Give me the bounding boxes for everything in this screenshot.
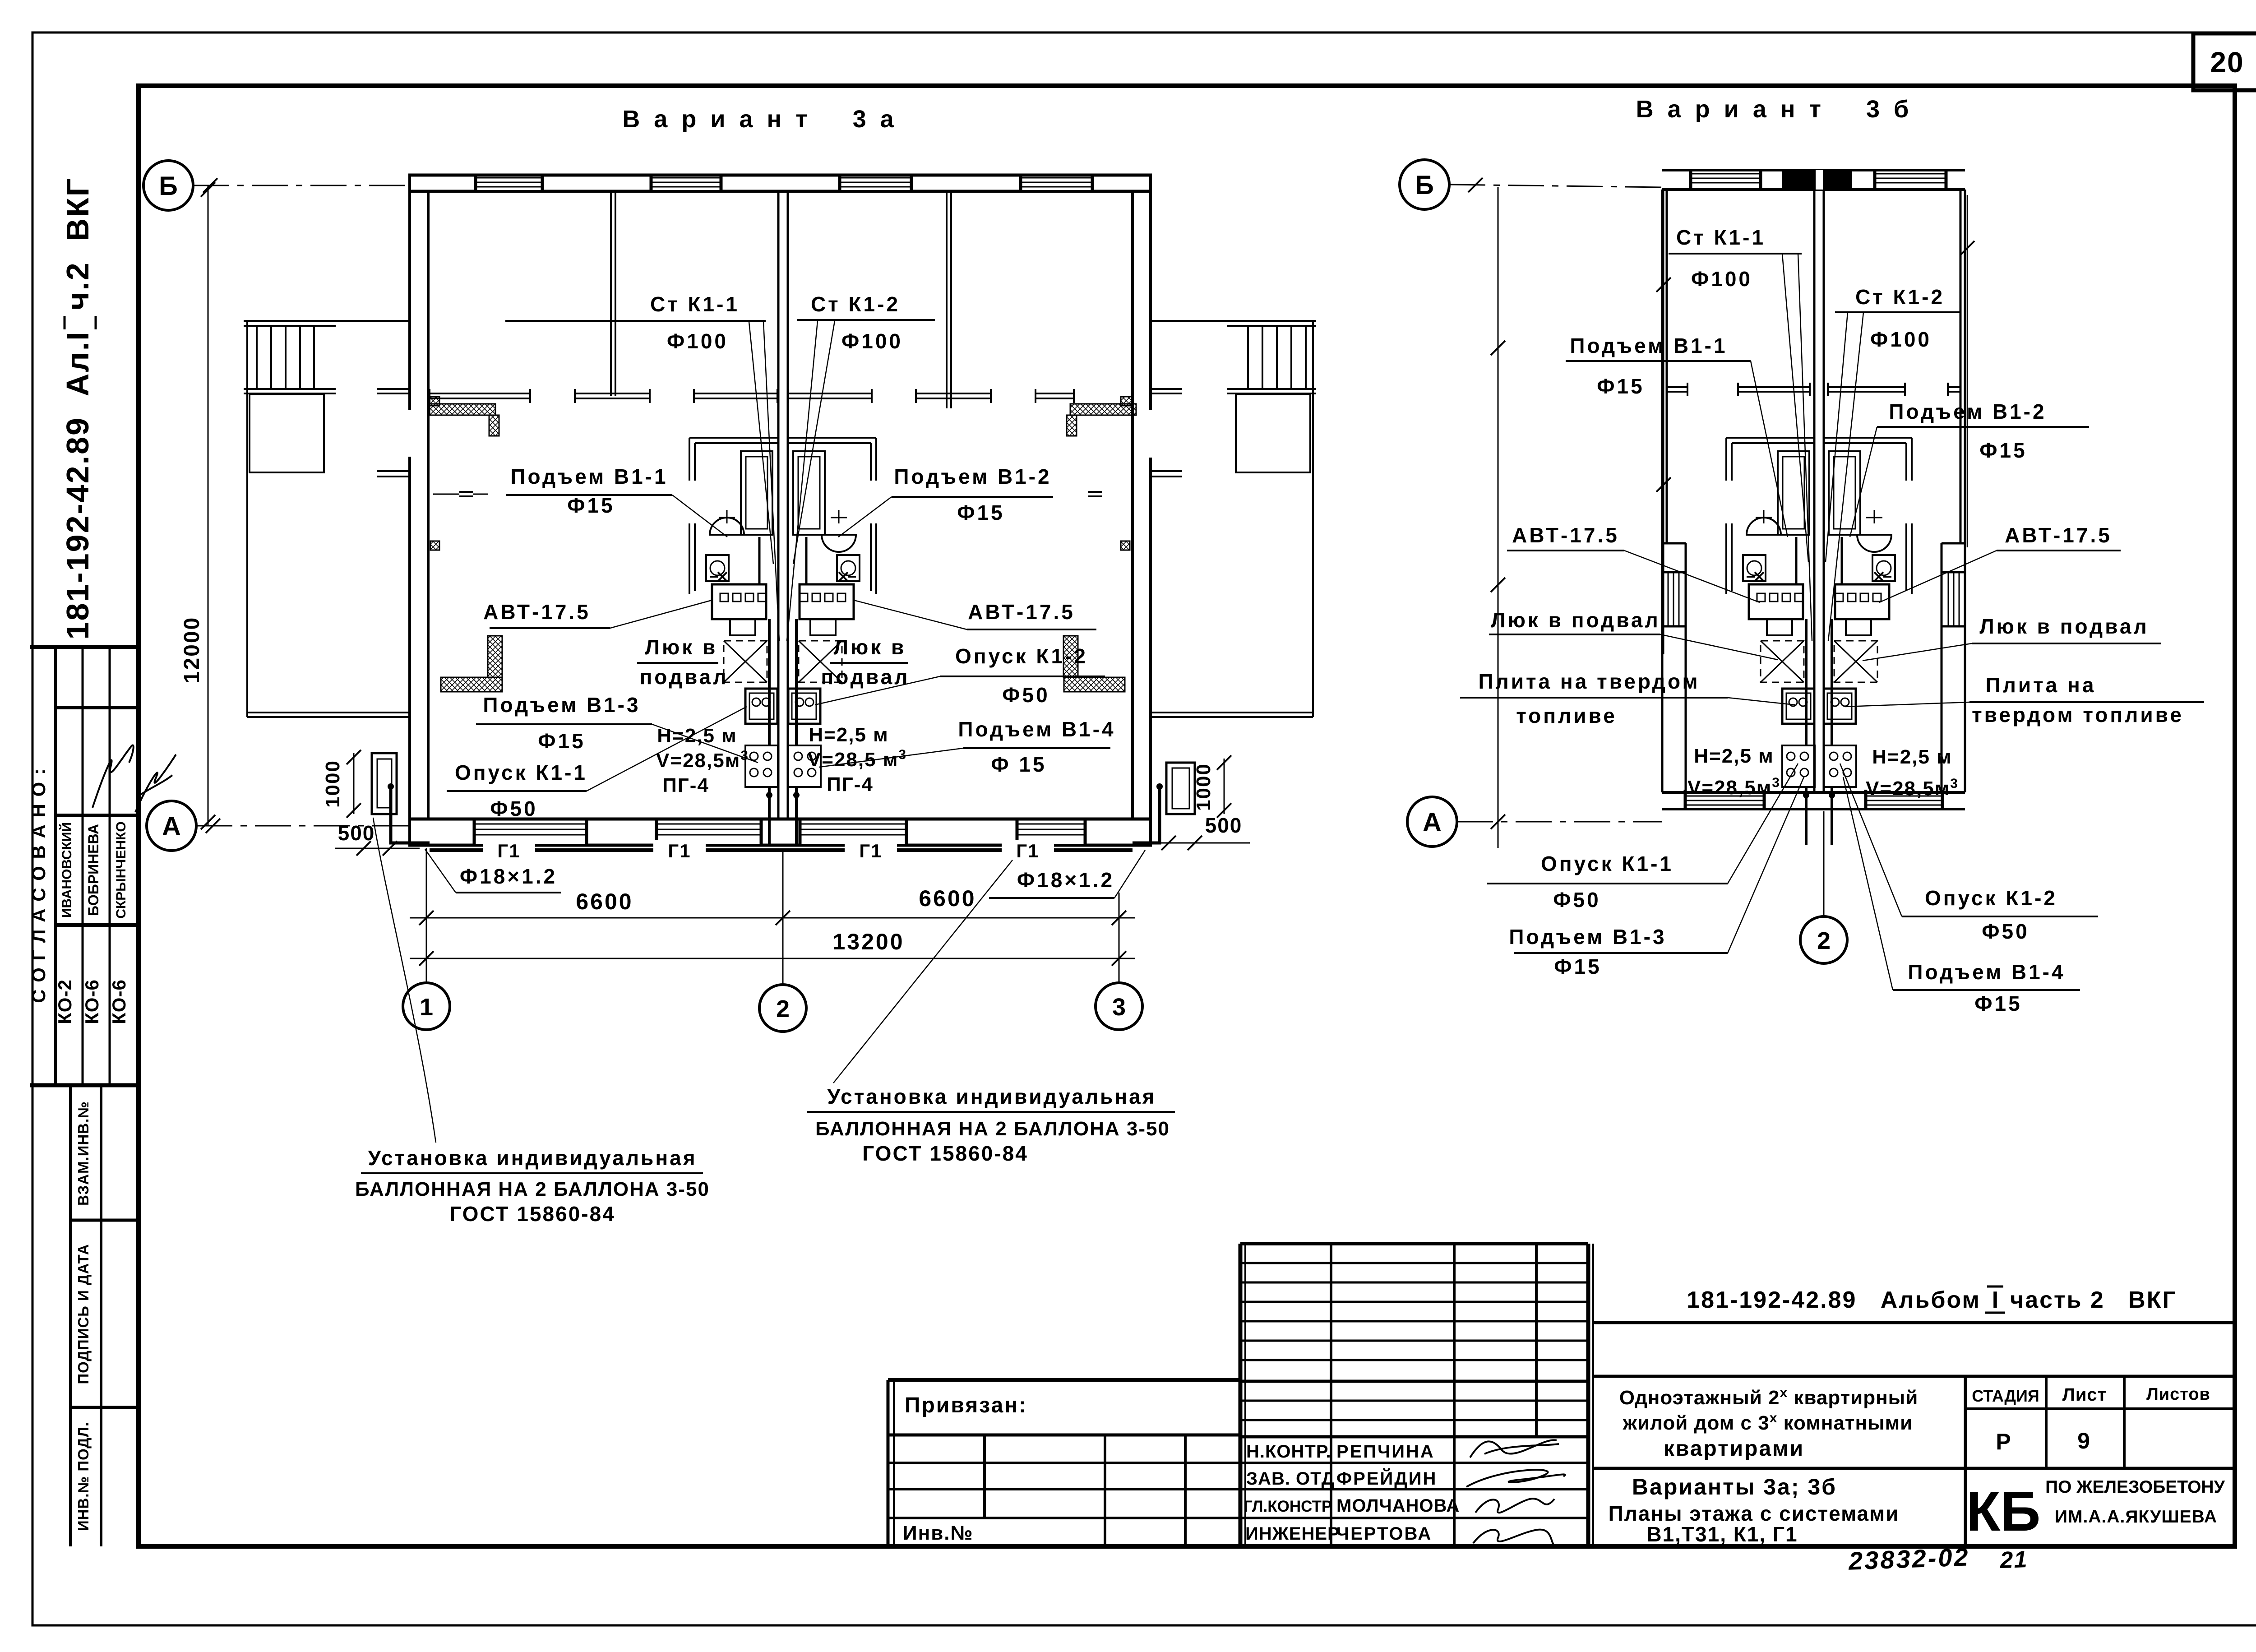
svg-text:13200: 13200 <box>832 929 904 954</box>
leader плита right plan left <box>1728 698 1795 705</box>
svg-text:Ст К1-1: Ст К1-1 <box>1676 226 1766 249</box>
left porch left edge <box>246 321 248 717</box>
svg-text:Г1: Г1 <box>1016 840 1039 861</box>
svg-text:Люк в подвал: Люк в подвал <box>1491 608 1660 632</box>
svg-text:АВТ-17.5: АВТ-17.5 <box>1512 523 1619 547</box>
left plan kitchen hatched wall right horizontal <box>1064 677 1125 692</box>
svg-text:ГЛ.КОНСТР: ГЛ.КОНСТР <box>1244 1498 1332 1515</box>
leader Подъем В1-2 right plan <box>1850 427 1877 537</box>
svg-text:Ф 15: Ф 15 <box>991 753 1046 776</box>
svg-text:В а р и а н т 3 а: В а р и а н т 3 а <box>622 106 897 133</box>
sidebar table top line <box>30 645 139 649</box>
left plan top window 2262-2421 <box>1021 177 1092 190</box>
svg-text:ИНЖЕНЕР: ИНЖЕНЕР <box>1245 1524 1340 1544</box>
svg-text:Ф15: Ф15 <box>1554 955 1601 978</box>
svg-text:6600: 6600 <box>919 886 976 911</box>
svg-text:Опуск К1-2: Опуск К1-2 <box>955 644 1088 668</box>
left plan kitchen hatched wall left vertical <box>488 636 502 677</box>
gas water heater АГВ <box>712 584 766 619</box>
bathroom enclosure walls <box>689 437 777 439</box>
water riser and valve <box>1755 572 1764 581</box>
bath tub <box>793 451 825 535</box>
central table verticals <box>1330 1244 1332 1546</box>
dim 1000 left <box>353 753 355 814</box>
left plan bottom outer wall line <box>408 844 1152 847</box>
svg-text:Люк в: Люк в <box>834 635 906 659</box>
water riser and valve <box>718 572 727 581</box>
left plan bottom window 1455-1687 <box>656 821 761 844</box>
svg-text:МОЛЧАНОВА: МОЛЧАНОВА <box>1336 1496 1460 1516</box>
left plan top inner wall line <box>408 190 1152 193</box>
left plan kitchen hatched wall right vertical <box>1063 636 1078 677</box>
bathroom enclosure walls <box>1726 437 1814 439</box>
svg-text:ФРЕЙДИН: ФРЕЙДИН <box>1336 1468 1437 1489</box>
wash basin <box>822 535 856 552</box>
left porch bottom edge <box>247 712 408 713</box>
sidebar row line <box>55 706 139 709</box>
vertical dimension extension right plan <box>1498 187 1499 848</box>
svg-text:топливе: топливе <box>1516 704 1617 727</box>
sidebar lower cells verticals <box>69 1085 72 1546</box>
svg-text:БАЛЛОННАЯ НА 2 БАЛЛОНА 3-50: БАЛЛОННАЯ НА 2 БАЛЛОНА 3-50 <box>815 1118 1170 1140</box>
svg-text:Опуск К1-2: Опуск К1-2 <box>1925 886 2057 910</box>
svg-text:ЧЕРТОВА: ЧЕРТОВА <box>1336 1524 1432 1544</box>
right plan top outer wall line <box>1662 169 1965 171</box>
svg-text:Ф18×1.2: Ф18×1.2 <box>460 865 557 888</box>
vertical dimension line right plan <box>1663 190 1664 654</box>
svg-text:500: 500 <box>338 821 375 845</box>
left plan bottom window 2254-2405 <box>1017 821 1085 844</box>
sidebar lower row line 1 <box>70 1219 139 1222</box>
svg-text:СКРЫНЧЕНКО: СКРЫНЧЕНКО <box>114 821 129 918</box>
svg-text:Люк в подвал: Люк в подвал <box>1979 615 2149 638</box>
leader люк right plan left <box>1660 634 1778 660</box>
left porch rail <box>244 388 336 390</box>
axis circle 1 <box>403 983 450 1030</box>
left porch stairs <box>256 326 258 389</box>
left plan hatched wall right horizontal <box>1070 404 1136 415</box>
svg-text:ПО ЖЕЛЕЗОБЕТОНУ: ПО ЖЕЛЕЗОБЕТОНУ <box>2045 1477 2225 1497</box>
names rows <box>1240 1462 1588 1464</box>
svg-text:КО-6: КО-6 <box>81 979 102 1024</box>
svg-text:V=28,5 м3: V=28,5 м3 <box>808 747 907 771</box>
water riser and valve <box>839 572 848 581</box>
right porch wall boxes <box>1121 397 1132 406</box>
svg-text:Ф18×1.2: Ф18×1.2 <box>1017 868 1114 892</box>
right plan central wall <box>1813 190 1816 792</box>
svg-text:Инв.№: Инв.№ <box>903 1522 974 1544</box>
dim 500 left <box>335 848 420 849</box>
gas pipe riser <box>1805 619 1808 745</box>
svg-text:ВЗАМ.ИНВ.№: ВЗАМ.ИНВ.№ <box>75 1101 92 1206</box>
svg-text:ИМ.А.А.ЯКУШЕВА: ИМ.А.А.ЯКУШЕВА <box>2055 1507 2217 1527</box>
svg-text:500: 500 <box>1205 814 1243 837</box>
bath tub <box>1829 451 1860 535</box>
svg-text:Подъем В1-2: Подъем В1-2 <box>894 465 1051 488</box>
sidebar names row bottom <box>55 923 139 927</box>
svg-text:Плита на: Плита на <box>1986 673 2096 697</box>
svg-text:1000: 1000 <box>322 760 344 808</box>
kitchen sink <box>788 689 820 724</box>
right plan top inner wall line <box>1662 188 1965 191</box>
svg-text:Н=2,5 м: Н=2,5 м <box>809 724 888 746</box>
dim 1000 right <box>1224 759 1225 814</box>
title block left table columns <box>983 1435 986 1518</box>
axis circle 2 right plan <box>1800 916 1847 963</box>
svg-text:Ф15: Ф15 <box>1979 439 2027 462</box>
description bottom line <box>1593 1467 2235 1470</box>
right plan left wall lower band <box>1685 543 1687 792</box>
leader Подъем В1-2 <box>838 497 892 537</box>
svg-text:БАЛЛОННАЯ НА 2 БАЛЛОНА 3-50: БАЛЛОННАЯ НА 2 БАЛЛОНА 3-50 <box>355 1178 710 1200</box>
signature Фрейдин <box>1466 1470 1565 1487</box>
svg-text:Ст К1-1: Ст К1-1 <box>650 292 740 316</box>
svg-text:Н=2,5 м: Н=2,5 м <box>1694 745 1774 767</box>
left plan right wall outer line <box>1149 175 1152 410</box>
svg-text:А: А <box>1423 808 1442 837</box>
svg-text:V=28,5м3: V=28,5м3 <box>1866 776 1959 800</box>
leader Ст К1-1 <box>749 322 773 564</box>
svg-text:твердом топливе: твердом топливе <box>1972 703 2184 727</box>
hatch to cellar dashed <box>1761 641 1804 682</box>
leader Ст К1-2 right plan <box>1826 312 1848 562</box>
roman I marks <box>1987 1286 2003 1288</box>
leader Опуск К1-2 <box>815 676 940 705</box>
leader Опуск К1-2 right plan <box>1840 764 1902 916</box>
svg-text:I: I <box>1992 1287 1998 1313</box>
kitchen sink <box>1824 689 1856 724</box>
svg-text:Ф100: Ф100 <box>1870 328 1932 351</box>
svg-text:20: 20 <box>2210 46 2244 79</box>
right plan top central solid block <box>1782 169 1852 191</box>
svg-text:часть 2 ВКГ: часть 2 ВКГ <box>2010 1287 2177 1313</box>
leader Подъем В1-3 right plan <box>1728 777 1804 953</box>
gas cabinet pipe left <box>391 787 430 843</box>
left porch wall boxes <box>429 397 439 406</box>
svg-text:Одноэтажный 2х квартирный: Одноэтажный 2х квартирный <box>1619 1385 1919 1409</box>
leader АВТ-17.5 right plan left <box>1624 551 1760 602</box>
svg-text:Подъем В1-4: Подъем В1-4 <box>958 717 1115 741</box>
left plan interior vertical partition left apartment <box>610 191 612 396</box>
left plan transverse partition <box>430 393 530 394</box>
left plan hatched wall left horizontal <box>430 404 495 415</box>
svg-text:Ф100: Ф100 <box>841 329 903 353</box>
svg-text:ПОДПИСЬ И ДАТА: ПОДПИСЬ И ДАТА <box>75 1244 92 1384</box>
svg-text:6600: 6600 <box>576 889 633 914</box>
bath tub <box>741 451 772 535</box>
leader Подъем В1-4 right plan <box>1843 777 1893 990</box>
svg-text:КБ: КБ <box>1966 1481 2041 1543</box>
leader Ст К1-1 right plan <box>1782 254 1808 562</box>
right plan top window 4155-4313 <box>1875 172 1946 188</box>
svg-text:Опуск К1-1: Опуск К1-1 <box>1541 852 1674 875</box>
svg-text:жилой дом с 3х комнатными: жилой дом с 3х комнатными <box>1623 1411 1913 1434</box>
svg-text:12000: 12000 <box>180 616 204 683</box>
leader Ст К1-2 <box>793 321 835 564</box>
kitchen sink <box>1782 689 1814 724</box>
leader АВТ-17.5 right <box>854 600 967 629</box>
right porch stairs <box>1247 326 1249 389</box>
wash basin <box>1857 535 1891 552</box>
leader Ф18х1.2 right <box>1114 850 1145 898</box>
svg-text:Ф50: Ф50 <box>1982 920 2029 943</box>
right plan bottom window 4135-4305 <box>1866 794 1942 807</box>
axis line А right plan <box>1457 821 1662 823</box>
right plan top window 3747-3902 <box>1691 172 1761 188</box>
left plan kitchen hatched wall left horizontal <box>441 677 502 692</box>
svg-text:квартирами: квартирами <box>1664 1437 1804 1461</box>
svg-text:АВТ-17.5: АВТ-17.5 <box>968 600 1075 624</box>
leader люк right plan right <box>1863 643 1972 661</box>
svg-text:ЗАВ. ОТД: ЗАВ. ОТД <box>1246 1469 1335 1489</box>
left plan central party wall <box>777 191 780 819</box>
left porch landing <box>250 394 324 472</box>
svg-text:Люк в: Люк в <box>645 635 718 659</box>
axis line Б left <box>193 185 408 186</box>
svg-text:ГОСТ 15860-84: ГОСТ 15860-84 <box>449 1202 615 1226</box>
svg-text:Ф50: Ф50 <box>1553 888 1600 912</box>
gas line Г1 <box>430 848 490 852</box>
svg-text:ГОСТ 15860-84: ГОСТ 15860-84 <box>862 1142 1028 1165</box>
svg-text:В1,Т31, К1, Г1: В1,Т31, К1, Г1 <box>1646 1522 1798 1546</box>
axis extension line 3 <box>1119 893 1120 983</box>
gas cabinet pipe right <box>1133 787 1160 843</box>
toilet <box>837 555 860 581</box>
right plan partition stubs <box>1667 386 1687 388</box>
sidebar signature squiggle 1 <box>92 745 134 808</box>
leader плита right plan right <box>1845 702 1969 707</box>
sheet number box 20 <box>2193 33 2256 90</box>
svg-text:Подъем В1-2: Подъем В1-2 <box>1889 400 2046 423</box>
hatch to cellar dashed <box>799 641 842 682</box>
axis extension 2 right plan <box>1823 811 1825 916</box>
svg-text:Подъем В1-1: Подъем В1-1 <box>510 465 668 488</box>
gas pipe riser <box>1831 619 1833 745</box>
svg-text:Б: Б <box>159 171 178 201</box>
axis line А left <box>196 825 410 827</box>
axis circle А left <box>147 801 196 851</box>
svg-text:2: 2 <box>776 995 790 1023</box>
svg-text:2: 2 <box>1817 927 1831 954</box>
axis circle Б left <box>143 161 193 210</box>
bath tub <box>1778 451 1809 535</box>
svg-text:Подъем В1-3: Подъем В1-3 <box>483 693 640 717</box>
svg-text:Г1: Г1 <box>859 840 882 861</box>
left plan top window 1054-1202 <box>476 177 542 190</box>
stove ПГ-4 <box>1782 745 1815 787</box>
gas water heater АГВ <box>1835 584 1889 619</box>
leader Подъем В1-4 <box>819 748 963 767</box>
svg-text:Ф15: Ф15 <box>1597 375 1644 398</box>
svg-text:181-192-42.89 Альбом: 181-192-42.89 Альбом <box>1687 1287 1981 1313</box>
axis circle А right plan <box>1407 797 1457 847</box>
axis circle 2 <box>759 985 806 1032</box>
hatch to cellar dashed <box>724 641 767 682</box>
svg-text:Н=2,5 м: Н=2,5 м <box>1872 746 1952 768</box>
svg-text:3: 3 <box>1112 994 1126 1021</box>
axis line Б right plan <box>1449 185 1662 187</box>
svg-text:Плита на твердом: Плита на твердом <box>1478 670 1700 693</box>
dimension line 6600+6600 <box>410 917 1135 919</box>
left plan top window 1443-1598 <box>651 177 721 190</box>
svg-text:Ф15: Ф15 <box>1974 992 2022 1015</box>
leader АВТ-17.5 left <box>610 600 712 628</box>
svg-text:V=28,5м3: V=28,5м3 <box>1687 775 1780 799</box>
svg-text:БОБРИНЕВА: БОБРИНЕВА <box>85 824 102 916</box>
svg-text:Ф15: Ф15 <box>957 501 1004 524</box>
leader Подъем В1-1 <box>672 495 727 537</box>
sidebar lower row line 2 <box>70 1406 139 1409</box>
svg-text:Опуск К1-1: Опуск К1-1 <box>455 761 587 784</box>
left plan vent mark right <box>1088 491 1102 493</box>
svg-text:подвал: подвал <box>640 665 729 689</box>
svg-text:181-192-42.89 Ал.I ч.2 ВКГ: 181-192-42.89 Ал.I ч.2 ВКГ <box>60 177 95 640</box>
left plan hatched wall left vertical <box>489 415 499 436</box>
svg-text:Листов: Листов <box>2146 1385 2210 1404</box>
stove ПГ-4 <box>788 745 821 787</box>
stove ПГ-4 <box>1824 745 1856 787</box>
title block central tall table <box>1239 1244 1243 1546</box>
right porch right edge <box>1312 321 1314 717</box>
title block left table rows <box>888 1434 1240 1437</box>
svg-text:Р: Р <box>1996 1429 2011 1454</box>
axis extension line 1 <box>426 848 427 983</box>
dim 500 right <box>1155 842 1250 844</box>
svg-text:9: 9 <box>2077 1428 2090 1453</box>
svg-text:ИНВ.№ ПОДЛ.: ИНВ.№ ПОДЛ. <box>75 1422 92 1531</box>
bathroom enclosure walls <box>788 437 876 439</box>
right porch rail <box>1227 388 1316 390</box>
toilet <box>1743 555 1766 581</box>
right plan right wall upper <box>1964 190 1966 792</box>
svg-text:ИВАНОВСКИЙ: ИВАНОВСКИЙ <box>59 822 74 918</box>
svg-text:Ф15: Ф15 <box>538 729 585 753</box>
svg-text:ПГ-4: ПГ-4 <box>827 773 874 796</box>
gas pipe riser <box>795 619 798 745</box>
sidebar signature row bottom <box>55 814 139 817</box>
left plan hatched wall right vertical <box>1067 415 1077 436</box>
overline of roman I <box>64 316 66 329</box>
title block: left attach table outline <box>887 1380 890 1546</box>
svg-text:Ф15: Ф15 <box>567 494 615 517</box>
leader Опуск К1-1 <box>587 707 747 791</box>
leader Подъем В1-1 right plan <box>1751 361 1788 537</box>
svg-text:Ф100: Ф100 <box>667 329 728 353</box>
right porch door stubs <box>1152 388 1182 390</box>
svg-text:ПГ-4: ПГ-4 <box>662 774 709 796</box>
leader note left <box>373 818 436 1143</box>
left plan left wall inner line <box>427 191 430 819</box>
wash basin <box>710 518 744 535</box>
svg-text:21: 21 <box>1999 1546 2028 1573</box>
svg-text:Ст К1-2: Ст К1-2 <box>811 292 900 316</box>
central/right divider <box>1586 1244 1590 1546</box>
sidebar column lines <box>54 647 57 1085</box>
toilet <box>1872 555 1895 581</box>
signature Чертова <box>1473 1530 1561 1548</box>
wash basin <box>1747 518 1781 535</box>
svg-text:1000: 1000 <box>1193 763 1215 811</box>
dimension line 13200 <box>410 958 1135 959</box>
column Стадия/Лист/Листов <box>1964 1376 1967 1546</box>
svg-text:Подъем В1-3: Подъем В1-3 <box>1509 925 1666 949</box>
svg-text:КО-6: КО-6 <box>108 979 129 1024</box>
svg-text:АВТ-17.5: АВТ-17.5 <box>483 600 591 624</box>
right porch landing <box>1236 394 1310 472</box>
svg-text:Установка индивидуальная: Установка индивидуальная <box>368 1146 697 1170</box>
gas bottle cabinet right <box>1166 763 1195 814</box>
svg-text:1: 1 <box>420 994 433 1021</box>
svg-text:Г1: Г1 <box>497 840 520 861</box>
left plan top outer wall line <box>408 174 1152 177</box>
svg-text:Подъем В1-4: Подъем В1-4 <box>1908 960 2065 984</box>
right plan bottom wall <box>1662 791 1965 794</box>
left plan top window 1861-2020 <box>840 177 911 190</box>
gas water heater АГВ <box>1749 584 1803 619</box>
toilet <box>706 555 729 581</box>
svg-text:Привязан:: Привязан: <box>905 1393 1027 1417</box>
leader АВТ-17.5 right plan right <box>1879 551 1997 602</box>
axis circle Б right plan <box>1400 160 1449 209</box>
svg-text:V=28,5м3: V=28,5м3 <box>656 748 749 772</box>
svg-text:Лист: Лист <box>2062 1385 2107 1405</box>
kitchen sink <box>745 689 777 724</box>
svg-text:Г1: Г1 <box>668 840 691 861</box>
left plan left wall outer line <box>408 175 411 410</box>
sidebar signature squiggle 2 <box>135 754 176 812</box>
vertical dimension line 12000 <box>208 185 209 826</box>
right porch top edge <box>1152 320 1316 322</box>
sidebar table bottom thick <box>30 1083 139 1087</box>
svg-text:подвал: подвал <box>821 665 910 689</box>
svg-text:Подъем В1-1: Подъем В1-1 <box>1570 334 1727 357</box>
title block header box line <box>1593 1321 2235 1324</box>
leader vertical right plan <box>1967 195 1968 547</box>
svg-text:Ф50: Ф50 <box>490 797 537 820</box>
svg-text:В а р и а н т 3 б: В а р и а н т 3 б <box>1636 96 1913 123</box>
gas bottle cabinet left <box>372 753 397 814</box>
svg-text:Ф50: Ф50 <box>1002 683 1049 707</box>
right plan left wall upper <box>1661 190 1664 792</box>
left plan bottom window 1773-2009 <box>800 821 906 844</box>
svg-text:Ст К1-2: Ст К1-2 <box>1855 285 1945 309</box>
leader note right <box>833 860 1012 1083</box>
leader Подъем В1-3 <box>652 724 758 763</box>
header second line <box>1593 1375 2235 1378</box>
water riser and valve <box>1874 572 1883 581</box>
svg-text:Б: Б <box>1415 171 1434 200</box>
stove ПГ-4 <box>745 745 778 787</box>
svg-text:Планы этажа с системами: Планы этажа с системами <box>1609 1502 1900 1525</box>
right plan right wall lower band <box>1941 543 1943 792</box>
signature Молчанова <box>1475 1499 1554 1513</box>
svg-text:Варианты 3а; 3б: Варианты 3а; 3б <box>1632 1474 1837 1499</box>
left porch top edge <box>244 320 408 322</box>
gas water heater АГВ <box>800 584 854 619</box>
left plan interior vertical partition right apartment <box>946 191 948 408</box>
svg-text:РЕПЧИНА: РЕПЧИНА <box>1336 1442 1435 1462</box>
axis circle 3 <box>1096 983 1142 1030</box>
left plan vent mark left <box>459 491 473 493</box>
svg-text:Установка индивидуальная: Установка индивидуальная <box>827 1085 1156 1108</box>
svg-text:СТАДИЯ: СТАДИЯ <box>1972 1387 2039 1405</box>
svg-text:Н=2,5 м: Н=2,5 м <box>657 725 737 747</box>
signature Репчина <box>1470 1440 1559 1458</box>
gas pipe riser <box>768 619 771 745</box>
svg-text:Н.КОНТР.: Н.КОНТР. <box>1246 1442 1331 1462</box>
svg-text:АВТ-17.5: АВТ-17.5 <box>2005 523 2112 547</box>
bathroom enclosure walls <box>1824 437 1912 439</box>
